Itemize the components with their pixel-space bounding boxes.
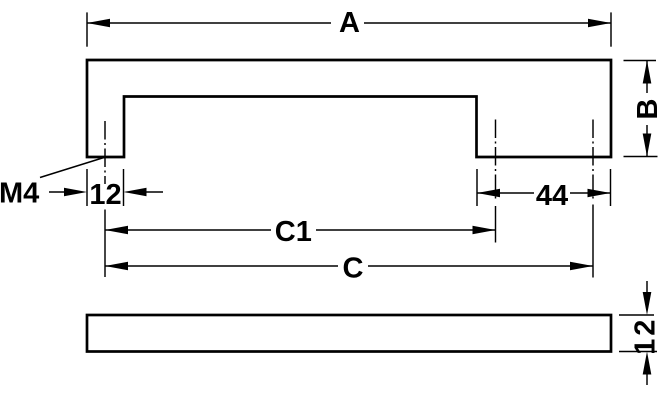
dimension C1 arrowhead left [105,226,128,235]
dimension C line [105,265,593,267]
dimension 12 side extension line bottom [619,351,657,353]
dimension 44 arrowhead left [477,189,500,198]
dimension 44 extension line right [610,169,612,206]
dimension 12 side arrow top [646,281,648,292]
svg-text:M4: M4 [0,178,39,210]
svg-text:C: C [343,253,364,285]
centerline right hole 2 [592,120,594,201]
handle side view outline [87,315,611,352]
svg-text:12: 12 [89,179,121,211]
dimension 44 extension line left [476,169,478,206]
dimension A extension line left [86,12,88,46]
dimension 12 arrow right [146,191,163,193]
centerline left hole M4 [104,121,106,184]
dimension 12 extension line left [86,169,88,206]
dimension 12 extension line right [123,169,125,206]
dimension 44 line [477,192,611,194]
handle front view outline [87,60,611,157]
centerline right hole 1 [495,120,497,201]
dimension C arrowhead right [570,262,593,271]
dimension 12 side extension line top [619,314,654,316]
dimension A arrowhead right [588,19,611,28]
dimension B arrowhead top [643,61,652,84]
dimension B extension line bottom [624,156,658,158]
svg-text:12: 12 [629,317,660,355]
dimension C1 line [105,229,496,231]
svg-text:44: 44 [536,180,568,212]
dimension 12 arrow left [49,191,66,193]
extension line C1 right [495,206,497,243]
dimension A line [87,22,611,24]
dimension 44 arrowhead right [588,189,611,198]
dimension B extension line top [624,60,657,62]
dimension A extension line right [610,12,612,46]
dimension B line [646,61,648,157]
dimension B arrowhead bottom [643,134,652,157]
leader line M4 [40,158,104,178]
svg-text:A: A [339,7,360,39]
dimension 12 side arrow bottom [646,374,648,385]
extension line C right [592,205,594,278]
dimension C1 arrowhead right [473,226,496,235]
svg-text:B: B [632,99,660,120]
extension line C1/C left [104,210,106,278]
dimension A arrowhead left [87,19,110,28]
svg-text:C1: C1 [275,216,312,248]
dimension C arrowhead left [105,262,128,271]
